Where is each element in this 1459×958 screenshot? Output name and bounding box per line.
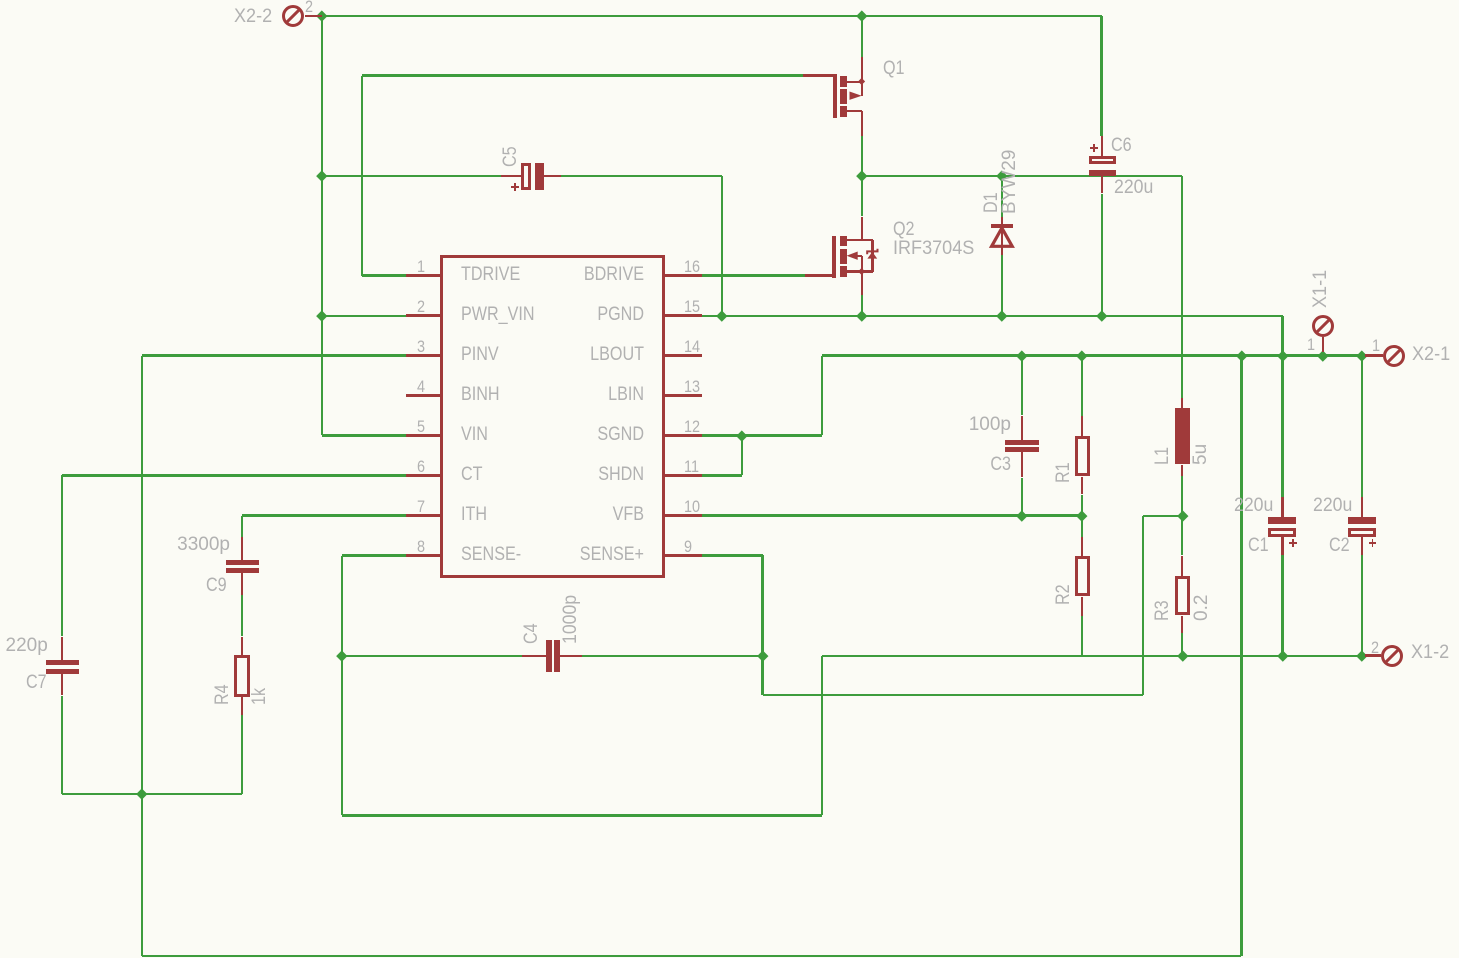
wire pin2 PWR_VIN: [0, 0, 1, 1]
resistor R4 1k: [0, 0, 1, 1]
pin 4 lead: [0, 0, 1, 1]
label C3: [0, 0, 1, 1]
pin number 2: [0, 0, 1, 1]
inductor L1 5u: [0, 0, 1, 1]
wire VIN vertical: [0, 0, 1, 1]
label C9: [0, 0, 1, 1]
junction R3 bottom: [0, 0, 1, 1]
junction C1 bottom: [0, 0, 1, 1]
wire C2 top vertical: [0, 0, 1, 1]
wire C7-R4 bottom rail: [0, 0, 1, 1]
wire Q1 source to SW: [0, 0, 1, 1]
junction C5-PGND: [0, 0, 1, 1]
connector pad X1-1: [0, 0, 2, 2]
junction VIN/X2-2: [0, 0, 1, 1]
pin 7 lead: [0, 0, 1, 1]
wire C7 bottom: [0, 0, 1, 1]
pin 3 lead: [0, 0, 1, 1]
wire pin12 SGND: [0, 0, 1, 1]
wire pin10 VFB rail: [0, 0, 1, 1]
pin 10 lead: [0, 0, 1, 1]
capacitor C6 220u polarized: [0, 0, 1, 1]
wire C9 to R4: [0, 0, 1, 1]
wire Q1 drain top: [0, 0, 1, 1]
label Q1: [0, 0, 1, 1]
label X1-1: [0, 0, 1, 1]
junction C3 top: [0, 0, 1, 1]
pin name SHDN: [0, 0, 1, 1]
capacitor C4 1000p: [0, 0, 1, 1]
label C7: [0, 0, 1, 1]
junction C1 top: [0, 0, 1, 1]
wire bottom loop rail: [0, 0, 1, 1]
pin 12 lead: [0, 0, 1, 1]
pin number 16: [0, 0, 1, 1]
pin number 14: [0, 0, 1, 1]
pin number 1 X2-1: [0, 0, 1, 1]
capacitor C3 100p: [0, 0, 1, 1]
wire VIN top rail: [0, 0, 1, 1]
capacitor C9 3300p: [0, 0, 1, 1]
wire C1 bottom vertical: [0, 0, 1, 1]
wire C5 left: [0, 0, 1, 1]
pin 16 lead: [0, 0, 1, 1]
label X2-1: [0, 0, 1, 1]
wire Q2 source to PGND: [0, 0, 1, 1]
junction C7/R4/PINV: [0, 0, 1, 1]
pin 6 lead: [0, 0, 1, 1]
value 220p: [0, 0, 1, 1]
pin 11 lead: [0, 0, 1, 1]
wire SENSE- vertical: [0, 0, 1, 1]
pin number 13: [0, 0, 1, 1]
pin name BDRIVE: [0, 0, 1, 1]
wire C5 to PGND vertical: [0, 0, 1, 1]
pin number 8: [0, 0, 1, 1]
wire PINV vertical: [0, 0, 1, 1]
wire SENSE+ vertical: [0, 0, 1, 1]
label BYW29: [0, 0, 1, 1]
junction L1/R3/SENSE+: [0, 0, 1, 1]
transistor Q2 IRF3704S: [0, 0, 1, 1]
pin name LBOUT: [0, 0, 1, 1]
pin name PWR_VIN: [0, 0, 1, 1]
pin name VIN: [0, 0, 1, 1]
pin name PGND: [0, 0, 1, 1]
diode D1 BYW29: [0, 0, 2, 2]
label R1: [0, 0, 1, 1]
wire SENSE- jog bottom: [0, 0, 1, 1]
pin name SENSE-: [0, 0, 1, 1]
pin name SENSE+: [0, 0, 1, 1]
label X2-2: [0, 0, 1, 1]
wire C6 top vertical: [0, 0, 1, 1]
wire SENSE+ riser: [0, 0, 1, 1]
wire pin5 VIN: [0, 0, 1, 1]
wire SENSE- riser: [0, 0, 1, 1]
junction Q2 source PGND: [0, 0, 1, 1]
capacitor C1 220u polarized: [0, 0, 1, 1]
connector pad X2-1: [0, 0, 2, 2]
pin number 10: [0, 0, 1, 1]
value 100p: [0, 0, 1, 1]
wire R1 top vertical: [0, 0, 1, 1]
label D1: [0, 0, 1, 1]
wire SGND riser: [0, 0, 1, 1]
wire ITH to C9: [0, 0, 1, 1]
wire R2 top vertical: [0, 0, 1, 1]
wire SENSE- to C4 left: [0, 0, 1, 1]
junction C3 bottom: [0, 0, 1, 1]
wire pin1 TDRIVE: [0, 0, 1, 1]
wire pin16 BDRIVE to Q2 gate: [0, 0, 1, 1]
wire PGND rail: [0, 0, 1, 1]
wire SENSE+ top jog: [0, 0, 1, 1]
pin name VFB: [0, 0, 1, 1]
wire C2 bottom vertical: [0, 0, 1, 1]
wire PGND corner down: [0, 0, 1, 1]
wire pin9 SENSE+: [0, 0, 1, 1]
wire pin11 SHDN: [0, 0, 1, 1]
value 0.2: [0, 0, 1, 1]
pin number 6: [0, 0, 1, 1]
wire R4 bottom: [0, 0, 1, 1]
label C6: [0, 0, 1, 1]
value 220u C1: [0, 0, 1, 1]
wire C6 bottom vertical: [0, 0, 1, 1]
wire C4 right to SENSE+: [0, 0, 1, 1]
pin 15 lead: [0, 0, 1, 1]
resistor R1: [0, 0, 1, 1]
wire pin3 PINV: [0, 0, 1, 1]
value 5u: [0, 0, 1, 1]
label C1: [0, 0, 1, 1]
transistor Q1: [0, 0, 1, 1]
junction C2 bottom: [0, 0, 1, 1]
wire CT to C7: [0, 0, 1, 1]
label Q2: [0, 0, 1, 1]
pin number 1: [0, 0, 1, 1]
junction D1 bottom: [0, 0, 1, 1]
wire R3 bottom vertical: [0, 0, 1, 1]
wire C1 top vertical: [0, 0, 1, 1]
pin number 12: [0, 0, 1, 1]
wire D1 top: [0, 0, 1, 1]
pin name CT: [0, 0, 1, 1]
connector pad X1-2: [0, 0, 2, 2]
label X1-2: [0, 0, 1, 1]
wire R3 top vertical: [0, 0, 1, 1]
label R2: [0, 0, 1, 1]
pin 5 lead: [0, 0, 1, 1]
wire SW to Q2 drain: [0, 0, 1, 1]
junction Q1 drain top rail: [0, 0, 1, 1]
value 1000p: [0, 0, 1, 1]
pin name PINV: [0, 0, 1, 1]
pin name ITH: [0, 0, 1, 1]
wire C3 top vertical: [0, 0, 1, 1]
pin number 1 X1-1: [0, 0, 1, 1]
resistor R2: [0, 0, 1, 1]
capacitor C5 220u(+): [0, 0, 1, 1]
connector pad X2-2: [0, 0, 2, 2]
wire SGND out rail: [0, 0, 1, 1]
wire SENSE+ jog: [0, 0, 1, 1]
junction X1-1: [0, 0, 1, 1]
wire X1-1 stub: [0, 0, 1, 1]
pin 1 lead: [0, 0, 1, 1]
pin number 2 X2-2: [0, 0, 1, 1]
junction PINV loop top: [0, 0, 1, 1]
pin number 9: [0, 0, 1, 1]
value 220u C2: [0, 0, 1, 1]
capacitor C2 220u polarized: [0, 0, 1, 1]
pin 8 lead: [0, 0, 1, 1]
wire PINV loop riser: [0, 0, 1, 1]
wire SHDN riser: [0, 0, 1, 1]
value 1k: [0, 0, 1, 1]
pin 9 lead: [0, 0, 1, 1]
label R3: [0, 0, 1, 1]
label R4: [0, 0, 1, 1]
junction C4 left: [0, 0, 1, 1]
wire D1 bottom: [0, 0, 1, 1]
junction C2 top: [0, 0, 1, 1]
wire pin7 ITH: [0, 0, 1, 1]
wire R1 bottom vertical: [0, 0, 1, 1]
pin name SGND: [0, 0, 1, 1]
junction SW node: [0, 0, 1, 1]
junction C5 left: [0, 0, 1, 1]
wire C3 bottom vertical: [0, 0, 1, 1]
junction SGND/SHDN: [0, 0, 1, 1]
junction PWR_VIN: [0, 0, 1, 1]
pin 13 lead: [0, 0, 1, 1]
wire L1 vertical from SW: [0, 0, 1, 1]
wire R2 bottom vertical: [0, 0, 1, 1]
wire C5 right: [0, 0, 1, 1]
op-amp U1 IC body: [0, 0, 1, 1]
junction C6 bottom: [0, 0, 1, 1]
wire L1 bottom vertical: [0, 0, 1, 1]
pin number 2 X1-2: [0, 0, 1, 1]
label IRF3704S: [0, 0, 1, 1]
pin number 4: [0, 0, 1, 1]
pin number 3: [0, 0, 1, 1]
pin name LBIN: [0, 0, 1, 1]
wire TDRIVE to Q1 gate: [0, 0, 1, 1]
wire GND rail: [0, 0, 1, 1]
wire TDRIVE vertical: [0, 0, 1, 1]
pin number 5: [0, 0, 1, 1]
wire pin6 CT: [0, 0, 1, 1]
capacitor C7 220p: [0, 0, 1, 1]
wire pin8 SENSE- left: [0, 0, 1, 1]
pin 2 lead: [0, 0, 1, 1]
pin name BINH: [0, 0, 1, 1]
junction R1 top: [0, 0, 1, 1]
junction D1 top: [0, 0, 1, 1]
pin 14 lead: [0, 0, 1, 1]
wire switch rail SW: [0, 0, 1, 1]
pin number 7: [0, 0, 1, 1]
label C4: [0, 0, 1, 1]
label L1: [0, 0, 1, 1]
label C5: [0, 0, 1, 1]
value 220u C6: [0, 0, 1, 1]
pin number 11: [0, 0, 1, 1]
pin number 15: [0, 0, 1, 1]
pin name TDRIVE: [0, 0, 1, 1]
label C2: [0, 0, 1, 1]
resistor R3 0.2: [0, 0, 1, 1]
junction C4 right: [0, 0, 1, 1]
value 3300p: [0, 0, 1, 1]
junction R1/R2: [0, 0, 1, 1]
